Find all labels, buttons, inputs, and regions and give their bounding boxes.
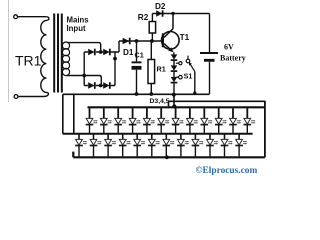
LED D_bot5 (bottom row LED 5) [133, 134, 145, 156]
wire secondary bottom to bridge [67, 76, 102, 86]
LED D_top9 (top row LED 9) [201, 108, 213, 133]
terminal top-left [14, 15, 18, 19]
LED D_bot2 (bottom row LED 2) [90, 134, 102, 156]
LED D_top10 (top row LED 10) [215, 108, 227, 133]
LED panel box top edge [169, 101, 265, 106]
diode bridge top-right [103, 49, 109, 56]
svg-text:S1: S1 [184, 71, 193, 80]
LED D_top11 (top row LED 11) [229, 108, 241, 133]
wire emitter to diode chain [173, 52, 175, 54]
svg-text:D2: D2 [155, 2, 166, 11]
wire bridge left vertical [83, 52, 85, 86]
switch S1 tap lower [176, 76, 179, 78]
diode D5 [171, 77, 178, 82]
page edge line [8, 0, 10, 102]
switch S1 tap upper [176, 62, 179, 64]
LED D_bot11 (bottom row LED 11) [221, 134, 233, 156]
resistor R2 [151, 14, 153, 42]
LED D_top5 (top row LED 5) [143, 108, 155, 133]
svg-text:R1: R1 [157, 65, 166, 74]
LED D_bot10 (bottom row LED 10) [206, 134, 218, 156]
LED middle bus [63, 133, 253, 135]
svg-text:TR1: TR1 [15, 53, 42, 69]
LED D_top6 (top row LED 6) [157, 108, 169, 133]
transformer TR1 primary winding [41, 17, 49, 97]
LED D_top12 (top row LED 12) [244, 108, 256, 133]
svg-text:C1: C1 [135, 51, 144, 60]
node collector junction [171, 12, 174, 15]
switch S1 pole [186, 59, 190, 63]
diode bridge top-left [88, 49, 94, 56]
node rail-C1 [135, 39, 139, 43]
wire positive rail [119, 40, 162, 42]
LED D_top1 (top row LED 1) [86, 108, 98, 133]
wire mains bottom [18, 96, 44, 98]
wire negative rail [63, 93, 210, 95]
LED D_top7 (top row LED 7) [172, 108, 184, 133]
svg-text:D1: D1 [123, 48, 134, 57]
svg-text:D3,4,5: D3,4,5 [150, 98, 170, 105]
diode D3 [171, 54, 178, 59]
wire D4-D5 [173, 72, 175, 77]
resistor R1 [150, 41, 152, 94]
svg-text:R2: R2 [138, 13, 149, 22]
wire top rail with D2 to battery [152, 13, 209, 15]
node C1-rail [135, 92, 139, 96]
svg-text:Battery: Battery [220, 53, 246, 62]
diode bridge bottom-right [103, 82, 109, 89]
diode bridge bottom-left [88, 82, 94, 89]
LED D_top2 (top row LED 2) [100, 108, 112, 133]
LED D_bot12 (bottom row LED 12) [235, 134, 247, 156]
node bottom bus [165, 155, 169, 159]
wire rail down to middle bus (feed) [73, 94, 75, 133]
node R1-rail [149, 92, 153, 96]
wire bridge right vertical [114, 52, 116, 86]
wire mains top [18, 16, 47, 18]
LED top bus [88, 106, 265, 108]
LED bottom bus [73, 152, 265, 158]
node chain-rail [172, 93, 176, 97]
wire secondary top to bridge [68, 43, 101, 52]
node S1-rail [193, 91, 196, 94]
wire D5 to rail [173, 83, 175, 94]
wire S1 to rail [194, 72, 196, 94]
battery 6V [209, 14, 211, 53]
LED D_top4 (top row LED 4) [129, 108, 141, 133]
LED D_bot6 (bottom row LED 6) [148, 134, 160, 156]
node bridge bottom midpoint [99, 84, 103, 88]
LED D_bot1 (bottom row LED 1) [75, 134, 87, 156]
transformer TR1 core [54, 14, 62, 93]
node rail-R1R2 [150, 39, 154, 43]
svg-text:©Elprocus.com: ©Elprocus.com [196, 165, 258, 176]
diode D1 [123, 38, 130, 45]
terminal bottom-left [14, 95, 18, 99]
wire D3-D4 [173, 61, 175, 66]
node bridge top midpoint [99, 50, 103, 54]
LED D_bot4 (bottom row LED 4) [119, 134, 131, 156]
wire rail down to middle bus (left edge) [62, 94, 64, 133]
node feed-top-bus [172, 104, 176, 108]
LED D_bot3 (bottom row LED 3) [104, 134, 116, 156]
diode D2 [156, 10, 162, 16]
LED panel box right edge [264, 101, 266, 158]
wire rail to LED top bus [173, 94, 175, 107]
svg-text:T1: T1 [180, 33, 190, 42]
node secondary-bottom / bridge-left junction [82, 74, 86, 78]
wire bridge bottom row [84, 85, 115, 87]
transistor T1 [162, 32, 180, 50]
svg-text:6V: 6V [224, 43, 234, 52]
capacitor C1 [136, 41, 138, 61]
LED D_bot8 (bottom row LED 8) [177, 134, 189, 156]
diode D4 [171, 65, 178, 70]
wire bridge output jog up to D1 rail [118, 41, 120, 52]
svg-text:Input: Input [67, 24, 86, 33]
LED D_bot7 (bottom row LED 7) [163, 134, 175, 156]
switch S1 lever [190, 63, 195, 71]
LED D_top8 (top row LED 8) [186, 108, 198, 133]
LED D_top3 (top row LED 3) [114, 108, 126, 133]
LED D_bot9 (bottom row LED 9) [192, 134, 204, 156]
wire bridge top row [84, 51, 119, 53]
node bridge right output [113, 57, 117, 61]
transformer TR1 secondary winding [62, 42, 69, 76]
